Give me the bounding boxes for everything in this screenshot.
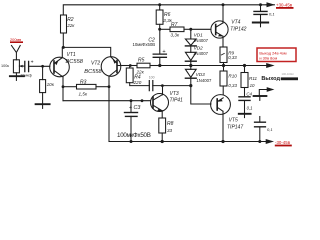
label R4 xyxy=(134,74,141,80)
label 100uF50V C3 xyxy=(117,132,151,139)
label VT5 xyxy=(229,117,238,123)
resistor R4 body xyxy=(126,68,133,83)
node chain top VT4 base xyxy=(189,28,192,31)
svg-text:R6: R6 xyxy=(164,12,171,18)
label R11 faint xyxy=(0,0,1,1)
wire VD3 to bottom node xyxy=(190,79,192,86)
label VD1 xyxy=(194,32,204,37)
label 10 R11 xyxy=(250,83,255,88)
node diode chain bottom xyxy=(189,84,192,87)
svg-text:и 30в 8ом: и 30в 8ом xyxy=(259,56,277,61)
red info box xyxy=(257,48,296,62)
red underline under 200mv xyxy=(10,41,23,43)
label 1,5k xyxy=(79,91,88,96)
node VT2 base R5 R4 xyxy=(129,64,132,67)
resistor R10 body xyxy=(220,71,227,86)
svg-text:33: 33 xyxy=(167,128,173,133)
wire R7 left xyxy=(160,28,170,30)
svg-text:0,33: 0,33 xyxy=(228,55,237,60)
label R3 xyxy=(80,79,87,85)
resistor R9 body xyxy=(220,47,227,63)
resistor R3 body xyxy=(77,84,97,89)
svg-text:1N4007: 1N4007 xyxy=(193,51,209,56)
label 220 xyxy=(133,80,142,85)
label VD3 xyxy=(196,72,206,77)
svg-text:0,1: 0,1 xyxy=(269,12,275,17)
ground C1 xyxy=(253,22,268,24)
wire R10 top xyxy=(223,66,225,72)
label 10uF xyxy=(20,74,32,78)
node R8 bottom rail xyxy=(161,140,164,143)
diode VD3 xyxy=(185,69,196,78)
wire VT4 emitter to R9 xyxy=(222,36,224,47)
svg-text:R10: R10 xyxy=(228,74,237,79)
wire chain top to VT4 base xyxy=(191,28,211,30)
wire top rail +supply xyxy=(63,5,266,15)
potentiometer R1 100k body xyxy=(13,60,19,73)
label R8 xyxy=(167,121,174,127)
capacitor comp plates xyxy=(149,81,153,91)
capacitor C1 plates xyxy=(254,11,267,14)
resistor R11 body xyxy=(241,73,248,88)
wire R2 bottom to emitter rail xyxy=(62,33,64,47)
label 100-100vt xyxy=(282,72,295,76)
svg-text:VT4: VT4 xyxy=(231,20,240,26)
node R11 output rail xyxy=(243,64,246,67)
svg-text:TIP142: TIP142 xyxy=(230,26,246,32)
svg-text:100-100вт: 100-100вт xyxy=(282,72,295,76)
label output power line1 xyxy=(259,51,287,56)
label 22k R5 xyxy=(136,69,145,74)
label 3,3k R7 xyxy=(171,33,180,38)
wire R11 top xyxy=(244,66,246,73)
svg-text:1,5к: 1,5к xyxy=(79,91,88,96)
wire 10k to ground xyxy=(42,93,44,104)
wire node down to R1b xyxy=(42,66,44,79)
svg-text:100: 100 xyxy=(149,76,155,80)
label VT4 xyxy=(231,20,240,26)
label VT2 xyxy=(91,61,100,67)
wire VT3 emitter to R8 xyxy=(161,111,163,118)
wire R4 top xyxy=(129,66,131,69)
node VT4 collector rail xyxy=(222,3,225,6)
resistor R7 body xyxy=(170,27,184,32)
capacitor C1 input 10uF plates xyxy=(25,61,29,71)
label 22k R2 xyxy=(66,23,75,28)
node C3 bottom rail xyxy=(130,140,133,143)
wire feedback rail to output arrow xyxy=(160,65,266,67)
svg-text:10мкф: 10мкф xyxy=(20,74,32,78)
red underline -30-45v xyxy=(275,145,292,147)
label VT3 xyxy=(170,91,179,97)
wire C3 bottom xyxy=(130,116,132,141)
wire input cap to VT1 base xyxy=(29,65,50,67)
node VT3 collector xyxy=(161,84,164,87)
svg-text:3,3к: 3,3к xyxy=(171,33,180,38)
wire R3 right xyxy=(96,86,109,88)
wire R7 right to chain top xyxy=(184,28,191,30)
label BC558 VT1 xyxy=(66,59,84,65)
wire R3 left xyxy=(63,86,77,88)
svg-text:TIP147: TIP147 xyxy=(227,124,243,130)
label +30-45v xyxy=(276,2,293,7)
svg-text:100к: 100к xyxy=(1,64,9,68)
node cap bottom rail xyxy=(258,140,261,143)
svg-text:+ C3: + C3 xyxy=(129,105,141,111)
wire VT2 base to node xyxy=(117,65,130,67)
arrow +supply xyxy=(266,4,275,6)
capacitor C1 supply top stem xyxy=(260,5,262,11)
wire chain bottom to VT5 base xyxy=(191,86,211,104)
svg-text:C4: C4 xyxy=(246,91,252,96)
label BC558 VT2 xyxy=(84,69,102,75)
svg-text:10: 10 xyxy=(250,83,255,88)
svg-text:100мкФх50В: 100мкФх50В xyxy=(117,132,151,139)
node C3 tap xyxy=(130,99,133,102)
wire R9 bottom xyxy=(223,63,225,66)
wire VD2 to VD3 xyxy=(190,62,192,70)
svg-text:10к: 10к xyxy=(47,82,55,87)
label 3,3k R6 xyxy=(163,18,172,23)
svg-text:Выход: Выход xyxy=(261,76,280,82)
arrow output cold xyxy=(267,87,275,92)
label VD2 xyxy=(194,46,204,51)
wire VT2 collector to bottom rail xyxy=(108,76,110,141)
wire bottom rail xyxy=(109,141,266,143)
potentiometer wiper arrow xyxy=(19,65,24,67)
label VT1 xyxy=(67,52,76,58)
transistor VT4 TIP142 xyxy=(211,21,228,38)
svg-text:0,1: 0,1 xyxy=(267,127,273,132)
wire C4 bottom xyxy=(244,101,246,113)
label 0,33 R9 xyxy=(228,55,237,60)
node VT5 bottom rail xyxy=(221,140,224,143)
svg-text:-30-45в: -30-45в xyxy=(275,140,291,145)
transistor VT3 TIP41 xyxy=(151,94,169,112)
wire VT3 collector up xyxy=(162,86,164,95)
capacitor C2 stem top xyxy=(159,29,161,53)
svg-text:22к: 22к xyxy=(66,23,75,28)
wire VT5 collector to bottom rail xyxy=(222,111,224,141)
label -30-45v xyxy=(275,140,291,145)
node R6 top rail xyxy=(158,3,161,6)
resistor R8 body xyxy=(159,118,166,133)
wire VD1 to VD2 xyxy=(190,46,192,52)
label 0,1 C4 xyxy=(247,106,253,111)
svg-text:BC558: BC558 xyxy=(66,59,84,65)
wire C5 bottom xyxy=(259,127,261,141)
label Vyhod output xyxy=(261,76,280,82)
svg-text:VT1: VT1 xyxy=(67,52,76,58)
resistor R1b 10k body xyxy=(40,80,46,93)
label 0,1 C1 xyxy=(269,12,275,17)
capacitor C5 plates xyxy=(255,122,266,127)
transistor VT5 TIP147 xyxy=(211,95,231,115)
diode VD1 xyxy=(185,39,196,46)
diode VD2 xyxy=(185,52,196,61)
label R6 xyxy=(164,12,171,18)
svg-text:VT3: VT3 xyxy=(170,91,179,97)
svg-text:220: 220 xyxy=(133,80,142,85)
svg-text:VD3: VD3 xyxy=(196,72,206,77)
svg-text:+30-45в: +30-45в xyxy=(276,2,293,7)
ground 10k xyxy=(36,103,50,105)
svg-text:VT2: VT2 xyxy=(91,61,100,67)
label 1N4007 VD1 xyxy=(193,38,209,43)
svg-text:0,1: 0,1 xyxy=(247,106,253,111)
resistor R5 body xyxy=(137,63,150,68)
node input base xyxy=(41,65,44,68)
label 100k xyxy=(1,64,9,68)
wire output cold corner xyxy=(259,90,266,96)
svg-text:VD2: VD2 xyxy=(194,46,204,51)
wire R8 bottom xyxy=(161,133,163,142)
node R9 output rail xyxy=(222,64,225,67)
wire R5 left xyxy=(130,65,137,67)
arrow -supply xyxy=(266,139,274,144)
label plus C2 xyxy=(162,49,165,55)
label TIP41 xyxy=(170,97,184,103)
svg-text:TIP41: TIP41 xyxy=(170,97,184,103)
label R7 xyxy=(171,22,178,28)
capacitor C3 plates xyxy=(125,112,138,114)
label TIP142 xyxy=(230,26,246,32)
label plus xyxy=(31,60,34,66)
diode chain stem top xyxy=(190,29,192,39)
svg-text:BC558: BC558 xyxy=(84,69,102,75)
arrow output xyxy=(266,63,274,68)
node chain output tap xyxy=(189,64,192,67)
wire VT1 collector down xyxy=(62,77,64,101)
red underline +30-45v xyxy=(276,7,294,9)
wire VT4 collector to rail xyxy=(222,5,224,23)
svg-text:VD1: VD1 xyxy=(194,32,204,37)
transistor VT2 BC558 xyxy=(101,57,121,77)
label 10k xyxy=(47,82,55,87)
node C1 rail xyxy=(259,3,262,6)
capacitor C5 supply bottom stem top xyxy=(259,117,261,122)
mark R9 xyxy=(221,53,224,55)
label 0,1 C5 xyxy=(267,127,273,132)
label R9 xyxy=(228,51,234,56)
svg-text:VT5: VT5 xyxy=(229,117,238,123)
svg-text:0,33: 0,33 xyxy=(228,83,237,88)
svg-text:R5: R5 xyxy=(138,57,145,63)
resistor R6 body xyxy=(156,10,163,24)
label 33 xyxy=(167,128,173,133)
label R11 xyxy=(249,76,258,81)
wire C2 bottom xyxy=(159,58,161,66)
svg-text:R11: R11 xyxy=(249,76,258,81)
wire R11 bottom to C4 xyxy=(244,88,246,97)
thick output bar xyxy=(281,77,298,80)
label output power line2 xyxy=(259,56,277,61)
label R2 xyxy=(67,17,74,23)
resistor R2 22k body xyxy=(61,15,67,33)
wire comp cap to VT3 collector xyxy=(153,85,191,87)
node VT1 collector R3 xyxy=(62,85,65,88)
node R3 VT2 collector xyxy=(108,85,111,88)
ground C4 xyxy=(239,113,251,115)
svg-text:R7: R7 xyxy=(171,22,178,28)
svg-text:1N4007: 1N4007 xyxy=(193,38,209,43)
svg-text:200мв: 200мв xyxy=(10,37,21,42)
svg-text:R8: R8 xyxy=(167,121,174,127)
label 100 comp cap xyxy=(149,76,155,80)
svg-text:10мкФх50В: 10мкФх50В xyxy=(133,42,156,47)
svg-text:R3: R3 xyxy=(80,79,87,85)
label 0,33 R10 xyxy=(228,83,237,88)
wire VT1c rail to VT3 base xyxy=(63,100,150,102)
label C4 xyxy=(246,91,252,96)
wire VT1 emitter stem xyxy=(61,47,63,57)
wire R5 right to feedback rail xyxy=(150,65,160,67)
node extra xyxy=(141,99,144,102)
node R6 R7 C2 xyxy=(158,28,161,31)
label 200mv input level xyxy=(10,37,21,42)
capacitor C3 stem xyxy=(130,101,132,112)
capacitor C2 plates xyxy=(153,54,166,57)
wire R6 top xyxy=(159,5,161,10)
wire C1 bottom xyxy=(260,15,262,22)
node emitters R2 xyxy=(62,46,65,49)
capacitor C4 plates xyxy=(239,97,250,101)
label 1N4007 VD3 xyxy=(196,78,212,83)
input connector Y symbol xyxy=(12,46,21,60)
label 10uF50V C2 xyxy=(133,42,156,47)
ground pot xyxy=(10,75,24,77)
svg-text:1N4007: 1N4007 xyxy=(196,78,212,83)
transistor VT1 BC558 xyxy=(50,57,70,77)
label R5 xyxy=(138,57,145,63)
label C2 xyxy=(148,37,155,43)
svg-text:+: + xyxy=(31,60,34,66)
wire R6 bottom xyxy=(159,24,161,29)
label R10 xyxy=(228,74,237,79)
wire R4 bottom to comp cap xyxy=(130,83,150,86)
wire R10 bottom to VT5 emitter xyxy=(222,86,224,95)
ground output cold xyxy=(254,95,267,97)
label TIP147 xyxy=(227,124,243,130)
wire emitter rail xyxy=(63,47,110,56)
label +C3 xyxy=(129,105,141,111)
wire pot bottom xyxy=(15,73,17,76)
label 1N4007 VD2 xyxy=(193,51,209,56)
node C2 feedback rail xyxy=(158,64,161,67)
